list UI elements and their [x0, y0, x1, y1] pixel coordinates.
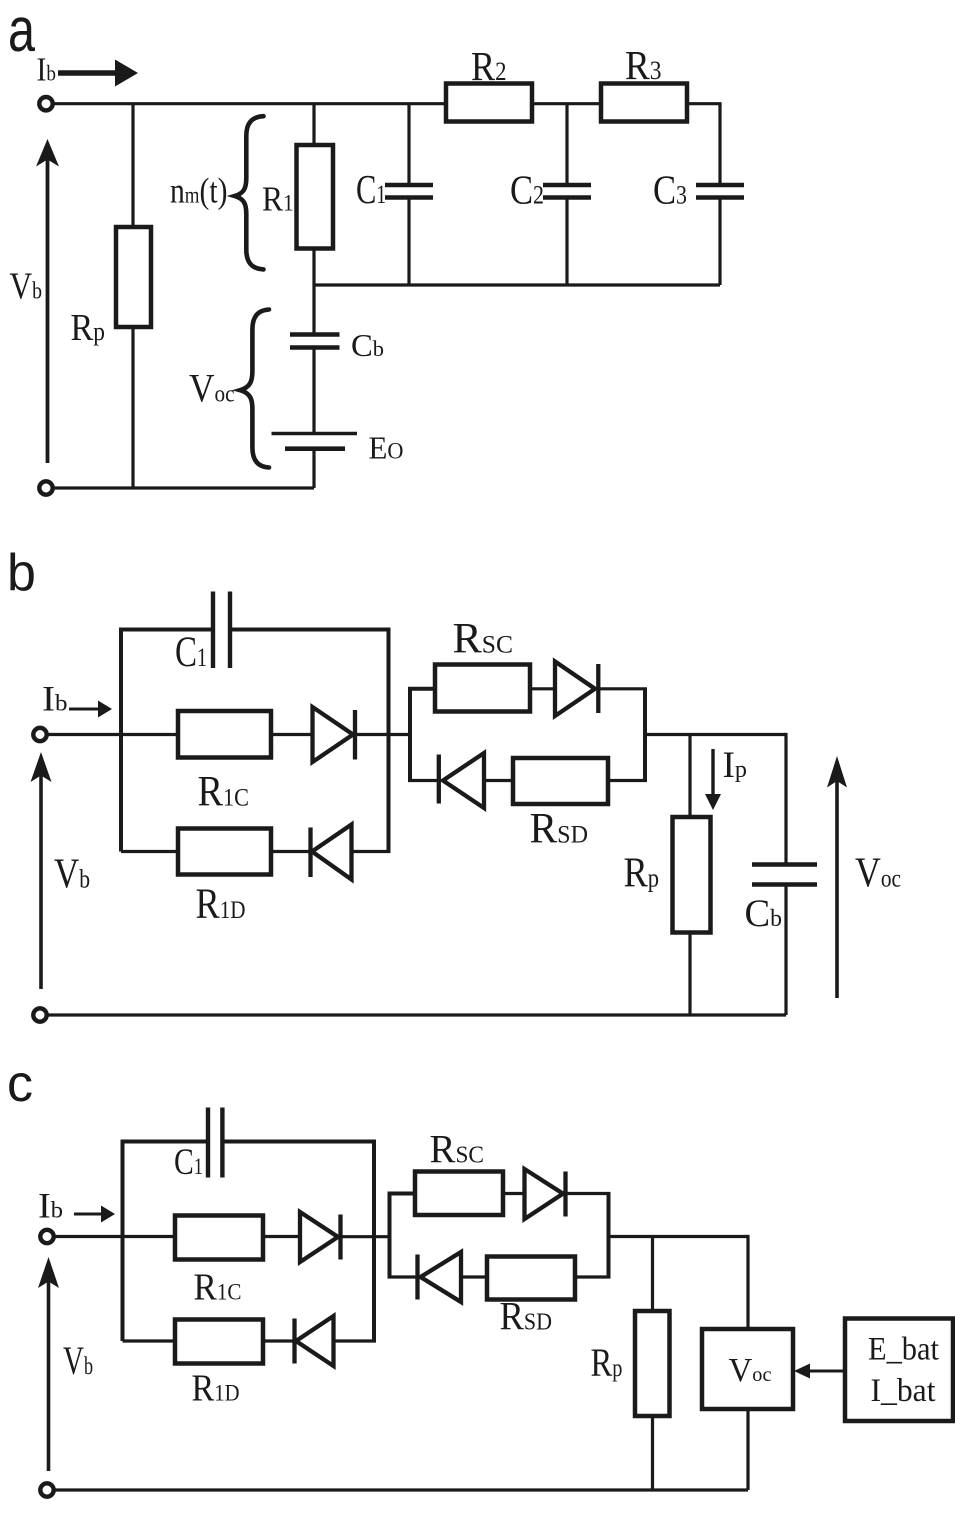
terminal node bottom-left (panel a)	[39, 481, 52, 494]
wire bottom rail (panel b)	[47, 1013, 787, 1016]
wire C2 branch upper (panel a)	[565, 104, 568, 185]
current arrow Ib (panel b)	[69, 701, 112, 718]
wire bottom rail (panel c)	[54, 1488, 749, 1491]
current arrow Ip (panel b)	[705, 749, 721, 810]
wire RSD branch left (panel b)	[408, 779, 439, 782]
resistor R1D (panel c)	[175, 1320, 263, 1364]
svg-text:c: c	[7, 1055, 33, 1113]
wire R1C to diode (panel c)	[263, 1235, 299, 1238]
wire diode to RS block (panel c)	[341, 1235, 390, 1238]
wire C2 branch lower (panel a)	[565, 198, 568, 286]
wire RSD branch left (panel c)	[388, 1275, 418, 1278]
wire Cb branch lower (panel b)	[784, 885, 787, 1016]
wire RSC branch left (panel c)	[388, 1192, 416, 1196]
wire Rp branch upper (panel b)	[688, 735, 691, 818]
wire left vertical of RS block (panel b)	[408, 689, 412, 781]
terminal node left (panel b)	[33, 728, 46, 741]
resistor R1D (panel b)	[178, 829, 271, 875]
diode D1C (panel c)	[300, 1212, 341, 1262]
wire output rail (panel c)	[609, 1235, 749, 1238]
diode D1D (panel c)	[295, 1316, 334, 1366]
svg-text:E_bat: E_bat	[868, 1332, 939, 1368]
capacitor C2	[543, 185, 591, 198]
brace nm(t)	[235, 116, 264, 269]
resistor R3	[601, 84, 687, 122]
wire Rp branch upper (panel a)	[131, 104, 134, 227]
battery E0	[272, 434, 358, 449]
capacitor C1 (panel b)	[213, 592, 230, 669]
capacitor C1 (panel c)	[208, 1108, 222, 1178]
current arrow Ib (panel c)	[74, 1206, 115, 1223]
resistor R2	[446, 84, 532, 122]
svg-text:nm(t): nm(t)	[170, 171, 228, 211]
svg-text:b: b	[7, 544, 36, 602]
resistor R1	[297, 145, 334, 249]
wire E0 to bottom rail (panel a)	[312, 449, 315, 488]
resistor RSC (panel c)	[415, 1172, 503, 1216]
wire C1 top branch right (panel b)	[232, 628, 391, 632]
wire R1 to Cb (panel a)	[312, 249, 315, 333]
resistor RSD (panel b)	[513, 758, 608, 804]
voltage arrow Vb (panel b)	[31, 752, 52, 989]
terminal node top-left (panel a)	[39, 97, 52, 110]
resistor R1C (panel b)	[178, 711, 271, 758]
block Voc (panel c)	[702, 1329, 793, 1409]
wire diode to block right (panel c)	[565, 1192, 611, 1195]
resistor Rp (panel a)	[116, 227, 151, 327]
wire R1D to diode (panel c)	[263, 1339, 294, 1342]
wire bottom rail (panel a)	[53, 486, 315, 489]
wire top rail between R2 and R3 (panel a)	[532, 102, 601, 105]
wire left vertical of RS block (panel c)	[388, 1194, 392, 1278]
resistor Rp (panel c)	[635, 1311, 670, 1416]
arrow E_bat to Voc (panel c)	[794, 1364, 845, 1379]
wire right vertical of R1 loop (panel b)	[387, 630, 391, 852]
wire input to R1C (panel b)	[47, 733, 179, 736]
block E_bat I_bat (panel c)	[845, 1319, 953, 1422]
wire top rail right of R3 to corner (panel a)	[687, 104, 720, 106]
wire RSC to diode (panel c)	[503, 1192, 524, 1195]
terminal node bottom-left (panel c)	[40, 1483, 53, 1496]
diode DSC (panel b)	[555, 662, 598, 717]
wire Voc branch lower (panel c)	[746, 1409, 749, 1490]
wire R1 branch upper (panel a)	[312, 104, 315, 145]
terminal node left (panel c)	[40, 1230, 53, 1243]
wire RSC to diode (panel b)	[530, 687, 556, 690]
capacitor C1 (panel a)	[385, 185, 433, 198]
svg-text:I_bat: I_bat	[871, 1373, 936, 1409]
svg-text:a: a	[8, 0, 35, 65]
wire C3 branch upper (panel a)	[718, 104, 721, 185]
wire diode to RSD (panel c)	[461, 1275, 487, 1278]
wire right vertical of R1 loop (panel c)	[372, 1141, 376, 1341]
wire R1D bottom branch left (panel b)	[121, 850, 178, 853]
wire diode to RSD (panel b)	[484, 779, 513, 782]
wire RSD to block right (panel b)	[608, 779, 647, 782]
wire RSD to block right (panel c)	[575, 1275, 611, 1278]
wire top rail left segment (panel a)	[53, 102, 447, 105]
wire Cb branch upper (panel b)	[784, 735, 786, 865]
diode D1C (panel b)	[313, 707, 356, 762]
wire C1 branch upper (panel a)	[407, 104, 410, 185]
wire Cb to E0 (panel a)	[312, 348, 315, 434]
wire output rail (panel b)	[645, 733, 786, 736]
capacitor Cb (panel a)	[290, 335, 340, 348]
wire Rp branch lower (panel c)	[651, 1416, 654, 1490]
wire Voc branch upper (panel c)	[746, 1237, 748, 1330]
wire Rp branch lower (panel a)	[131, 327, 134, 488]
diode DSD (panel c)	[418, 1252, 462, 1302]
wire diode to loop right (panel b)	[352, 850, 391, 853]
voltage arrow Voc (panel b)	[827, 756, 847, 998]
wire RSC branch left (panel b)	[408, 687, 435, 691]
wire left vertical of R1 loop (panel c)	[121, 1141, 125, 1341]
wire mid rail (panel a)	[314, 283, 720, 286]
resistor RSD (panel c)	[487, 1257, 575, 1300]
wire right vertical of RS block (panel b)	[643, 689, 647, 781]
diode DSC (panel c)	[525, 1169, 566, 1219]
capacitor C3	[696, 185, 744, 198]
wire R1D bottom branch left (panel c)	[123, 1339, 176, 1342]
wire Rp branch lower (panel b)	[688, 933, 691, 1016]
diode DSD (panel b)	[439, 753, 484, 808]
wire diode to loop right (panel c)	[334, 1339, 377, 1342]
wire C1 top branch left (panel c)	[121, 1140, 207, 1144]
resistor RSC (panel b)	[435, 665, 530, 712]
capacitor Cb (panel b)	[752, 865, 817, 885]
diode D1D (panel b)	[311, 825, 352, 880]
wire diode to block right (panel b)	[598, 687, 647, 690]
wire Rp branch upper (panel c)	[651, 1237, 654, 1312]
wire C3 branch lower (panel a)	[718, 198, 721, 286]
wire right vertical of RS block (panel c)	[607, 1194, 611, 1278]
voltage arrow Vb (panel a)	[36, 139, 59, 463]
wire R1D to diode (panel b)	[271, 850, 310, 853]
resistor Rp (panel b)	[673, 817, 711, 933]
wire input to R1C (panel c)	[54, 1235, 176, 1238]
wire C1 branch lower (panel a)	[407, 198, 410, 286]
wire C1 top branch left (panel b)	[119, 628, 211, 632]
voltage arrow Vb (panel c)	[38, 1257, 59, 1471]
current arrow Ib (panel a)	[58, 60, 138, 87]
wire diode to RS block (panel b)	[355, 733, 410, 736]
resistor R1C (panel c)	[175, 1216, 263, 1260]
wire left vertical of R1 loop (panel b)	[119, 630, 123, 852]
wire R1C to diode (panel b)	[271, 733, 313, 736]
brace Voc (panel a)	[240, 310, 269, 468]
terminal node bottom-left (panel b)	[33, 1008, 46, 1021]
wire C1 top branch right (panel c)	[225, 1140, 377, 1144]
